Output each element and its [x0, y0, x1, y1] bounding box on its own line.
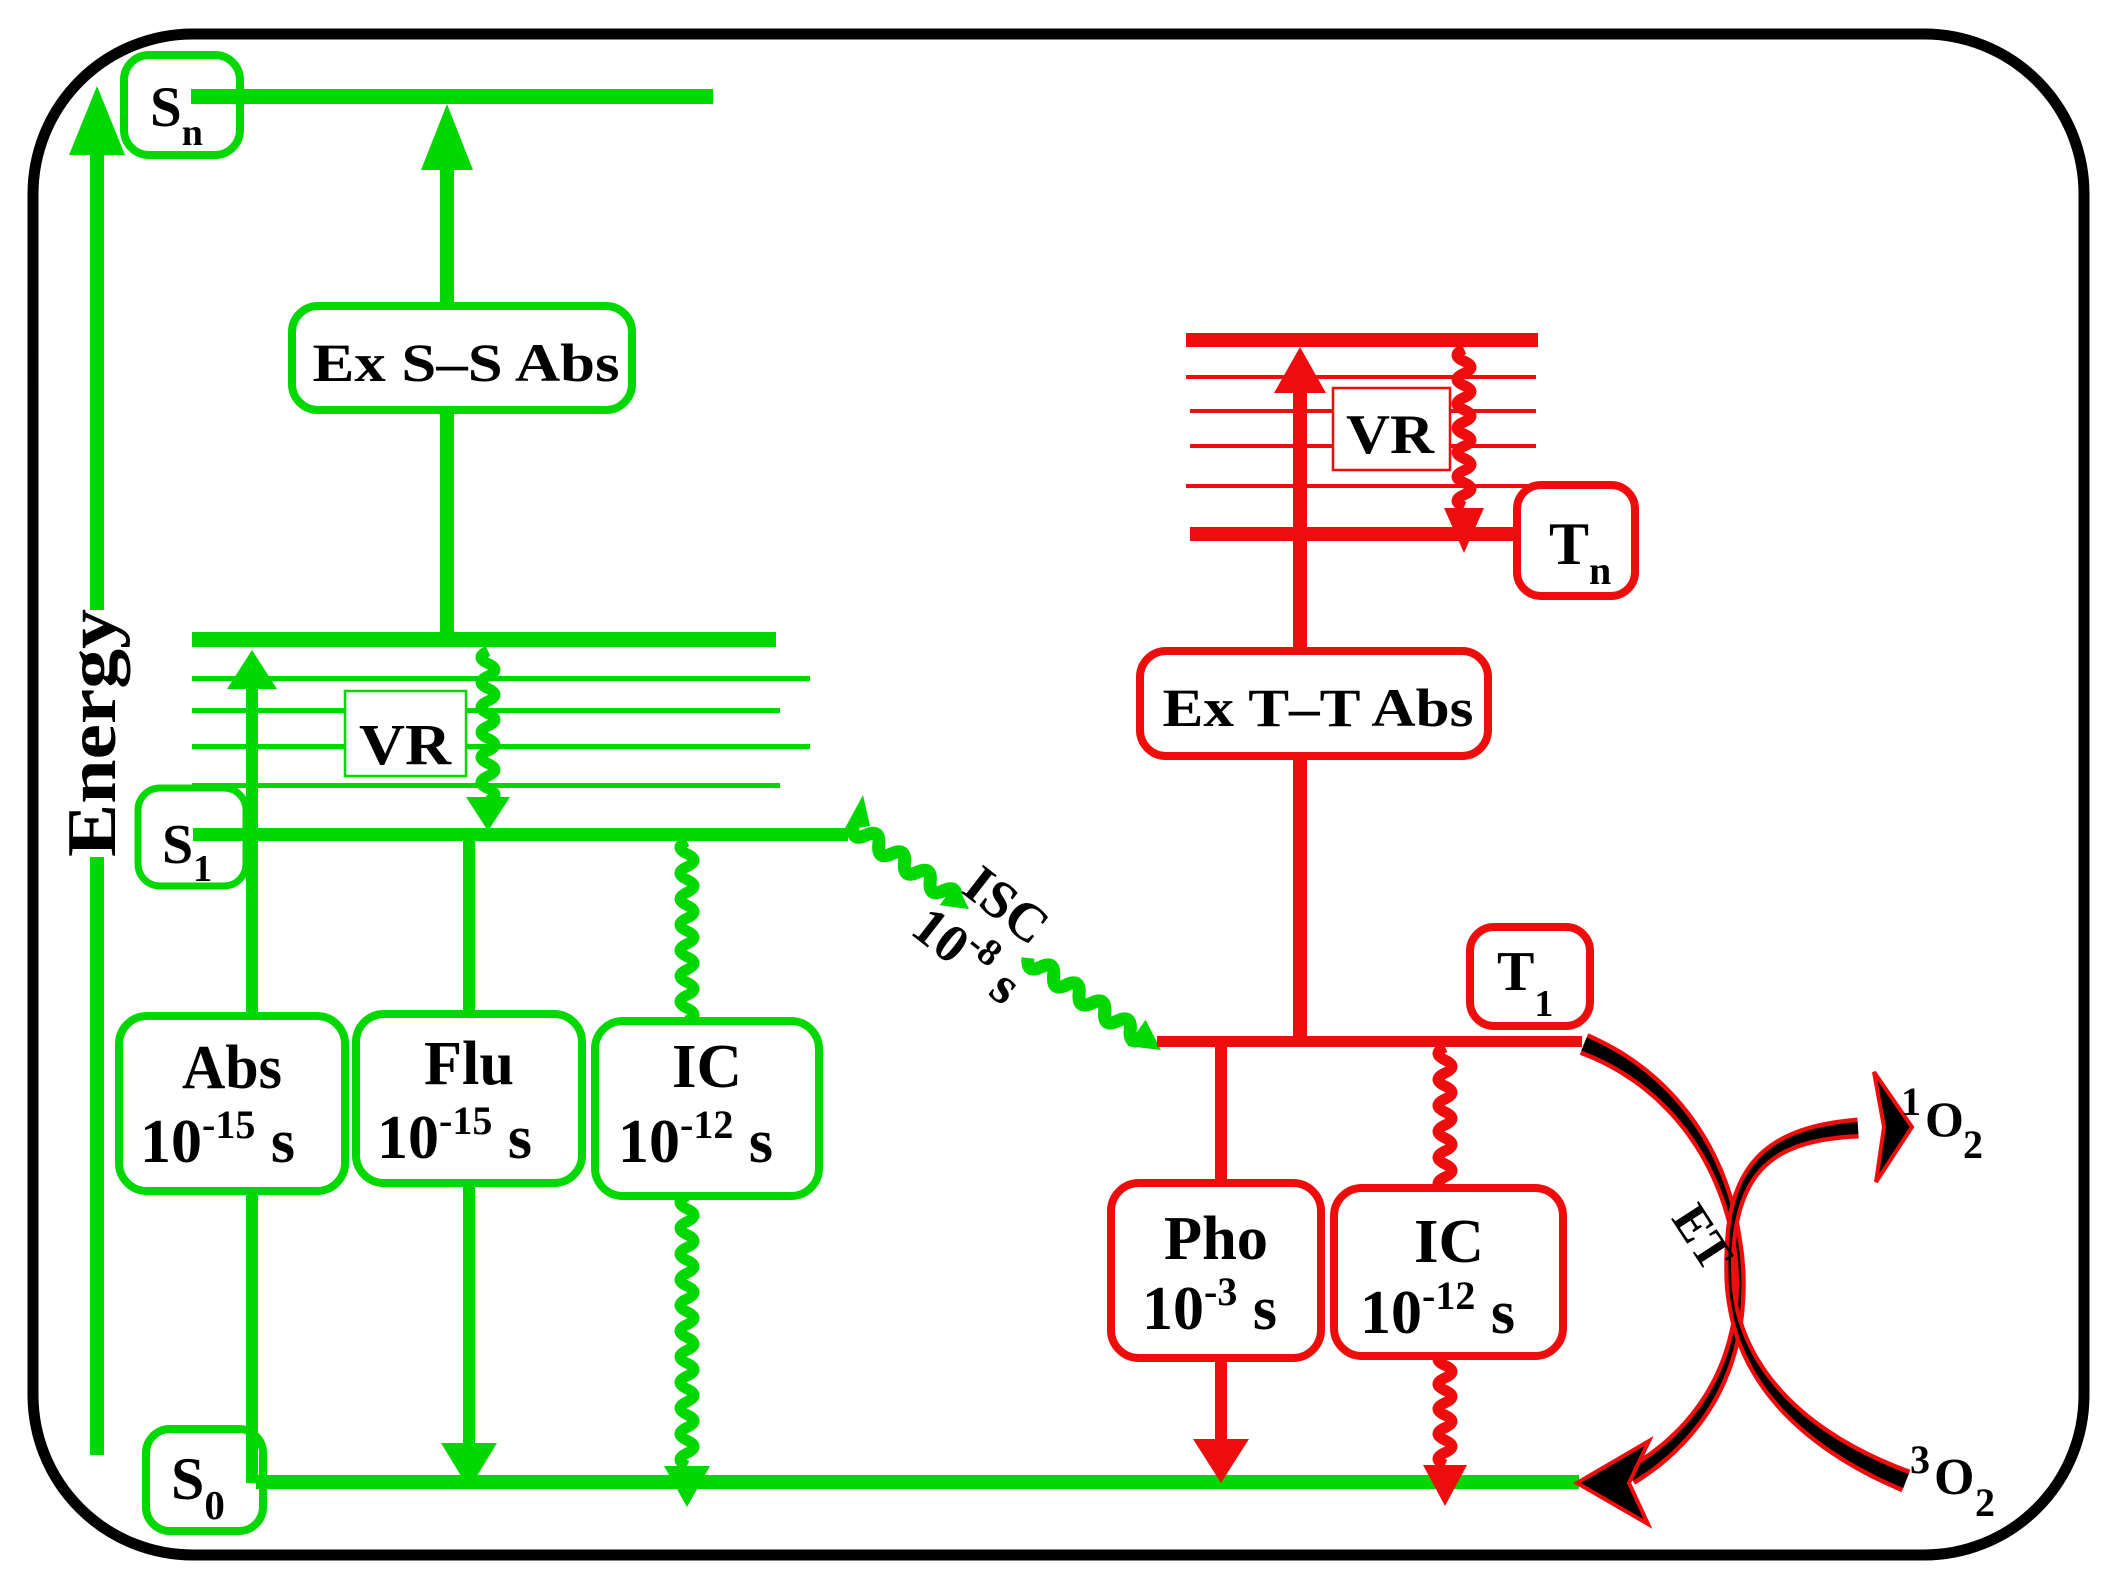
Tn vibrational level 2	[1190, 409, 1536, 413]
Abs label box	[119, 1016, 345, 1191]
IC label box (triplet)	[1334, 1188, 1563, 1356]
Pho arrow (T1 to S0, down)	[1215, 1047, 1227, 1185]
svg-text:IC: IC	[1414, 1208, 1484, 1276]
IC wavy arrow (S1 to S0)	[680, 841, 694, 1021]
Tn vibrational level 4	[1186, 484, 1528, 488]
ET curve: 3O2 to 1O2 (oxygen excitation)	[1724, 1118, 1910, 1493]
S1 vibrational level 1	[192, 676, 810, 681]
Tn level line	[1190, 527, 1514, 541]
svg-text:IC: IC	[672, 1033, 742, 1101]
svg-text:Ex S–S Abs: Ex S–S Abs	[313, 333, 620, 393]
VR label box (singlet)	[345, 691, 466, 776]
Abs arrow (S0 to S1, up)	[227, 650, 277, 689]
svg-text:2: 2	[1975, 1480, 1995, 1525]
S1 vibrational manifold top level	[192, 632, 776, 647]
Ex S-S Abs arrow (S1 to Sn)	[421, 104, 473, 170]
ET curve: T1 to S0 (photosensitizer relaxation)	[1580, 1033, 1746, 1484]
S1 vibrational level 2	[192, 708, 780, 713]
S1 state label box	[138, 788, 246, 886]
energy axis arrow (green, vertical, left)	[90, 150, 104, 610]
IC wavy arrow (T1 to S0)	[1438, 1047, 1452, 1190]
Ex T-T Abs label box	[1140, 651, 1488, 756]
VR label box (triplet)	[1333, 388, 1450, 470]
S0 ground level line	[256, 1475, 1579, 1489]
S1 vibrational level 3	[192, 744, 810, 749]
Ex T-T Abs arrow (T1 to Tn, up)	[1274, 347, 1326, 393]
Tn vibrational level 3	[1190, 444, 1536, 448]
svg-text:3: 3	[1910, 1437, 1930, 1482]
svg-text:Ex T–T Abs: Ex T–T Abs	[1163, 678, 1474, 738]
svg-text:VR: VR	[359, 712, 452, 777]
svg-text:Pho: Pho	[1164, 1205, 1268, 1273]
VR wavy arrow (singlet manifold)	[481, 651, 495, 801]
IC label box (singlet)	[595, 1021, 819, 1196]
svg-text:O: O	[1934, 1449, 1974, 1506]
Tn vibrational manifold top level	[1186, 333, 1538, 347]
svg-text:Flu: Flu	[424, 1030, 514, 1098]
Tn vibrational level 1	[1186, 375, 1536, 379]
svg-text:VR: VR	[1346, 404, 1435, 466]
svg-text:1: 1	[1901, 1079, 1921, 1124]
ISC label text	[901, 844, 1072, 1016]
Sn state label box	[124, 55, 240, 155]
Flu arrow (S1 to S0, down)	[463, 841, 475, 1014]
svg-text:O: O	[1925, 1091, 1964, 1147]
ISC wavy arrow (S1 to T1)	[853, 826, 956, 900]
svg-text:Abs: Abs	[182, 1034, 282, 1102]
T1 state label box	[1470, 927, 1590, 1026]
Tn state label box	[1517, 485, 1635, 596]
Pho label box	[1111, 1183, 1321, 1358]
S1 level line	[193, 828, 848, 841]
svg-text:Energy: Energy	[54, 609, 131, 857]
Flu label box	[356, 1014, 582, 1183]
T1 level line	[1157, 1036, 1582, 1047]
VR wavy arrow (triplet manifold)	[1457, 349, 1471, 507]
svg-text:2: 2	[1963, 1122, 1983, 1167]
Ex S-S Abs label box	[292, 306, 632, 410]
S1 vibrational level 4	[192, 783, 780, 788]
Sn level line	[191, 89, 713, 104]
S0 state label box	[146, 1429, 263, 1531]
